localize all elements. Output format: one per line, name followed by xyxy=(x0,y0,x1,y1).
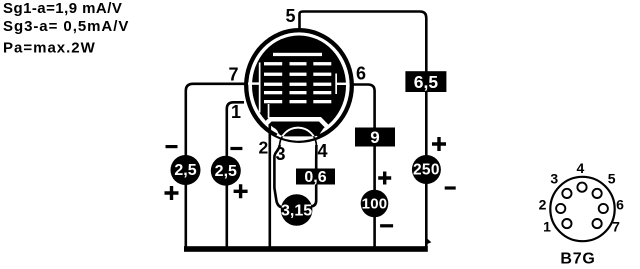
wire pin3 heater xyxy=(274,145,283,208)
svg-text:2: 2 xyxy=(539,197,547,213)
svg-text:1: 1 xyxy=(231,102,241,122)
wire pin6 to screen supply xyxy=(352,85,375,248)
wire pin1 to g3 bias xyxy=(227,102,244,247)
svg-text:3: 3 xyxy=(550,171,558,187)
plus sign of Vg3 xyxy=(234,184,248,198)
socket pin 7 hole xyxy=(593,219,602,228)
B7G socket outline xyxy=(550,177,614,241)
svg-text:6: 6 xyxy=(616,197,624,213)
svg-text:250: 250 xyxy=(413,162,440,179)
svg-text:5: 5 xyxy=(285,6,295,26)
meter anode current 6,5mA xyxy=(405,71,446,92)
internal lead bar left (g1/g3 to pins 7,1) xyxy=(259,63,261,113)
wire pin7 to g1 bias xyxy=(186,84,245,247)
wire pin4 heater xyxy=(309,145,317,207)
svg-text:4: 4 xyxy=(317,141,327,161)
battery anode 250V xyxy=(412,155,441,184)
svg-text:B7G: B7G xyxy=(560,251,595,268)
svg-text:2,5: 2,5 xyxy=(174,162,196,179)
plus sign of anode supply xyxy=(432,137,446,151)
junction arrow tick at anode branch/bus corner xyxy=(427,239,431,244)
grid g4 (dashed row) xyxy=(264,91,331,94)
plus sign of Vg1 xyxy=(165,186,179,200)
internal lead pin6 xyxy=(336,83,348,85)
internal lead pin7 xyxy=(248,82,261,84)
svg-text:100: 100 xyxy=(362,196,388,213)
svg-text:Sg3-a= 0,5mA/V: Sg3-a= 0,5mA/V xyxy=(3,18,129,35)
svg-text:9: 9 xyxy=(370,128,379,147)
minus sign of screen supply xyxy=(380,224,393,227)
socket pin 3 hole xyxy=(562,189,571,198)
tube V1 envelope ring xyxy=(246,30,352,141)
svg-text:2: 2 xyxy=(259,138,269,158)
svg-text:0,6: 0,6 xyxy=(304,169,326,186)
svg-text:6: 6 xyxy=(356,64,366,84)
minus sign of anode supply xyxy=(445,186,456,189)
wire pin5 to anode supply xyxy=(300,12,427,248)
svg-text:Sg1-a=1,9 mA/V: Sg1-a=1,9 mA/V xyxy=(3,0,122,17)
svg-text:3: 3 xyxy=(275,144,285,164)
battery screen 100V xyxy=(361,190,389,218)
svg-text:7: 7 xyxy=(612,219,620,235)
svg-text:6,5: 6,5 xyxy=(414,72,439,92)
battery heater 3,15V xyxy=(281,194,313,226)
svg-text:1: 1 xyxy=(543,219,551,235)
grid g5 (dashed row) xyxy=(264,100,331,103)
meter screen current 9mA xyxy=(355,128,395,147)
internal bracket g2+g4 (right) xyxy=(335,74,337,95)
anode plate (internal, white) xyxy=(273,53,322,56)
socket pin 4 hole xyxy=(577,183,586,192)
ground bus wire xyxy=(184,246,428,252)
socket pin 5 hole xyxy=(593,189,602,198)
svg-text:2,5: 2,5 xyxy=(215,163,237,180)
wire pin2 cathode to bus xyxy=(268,124,271,247)
svg-text:Pa=max.2W: Pa=max.2W xyxy=(3,40,96,57)
plus sign of screen supply xyxy=(378,172,391,185)
battery Vg3 -2,5V xyxy=(211,156,241,186)
minus sign of Vg3 xyxy=(230,147,242,150)
meter heater current 0,6A xyxy=(296,169,335,185)
socket pin 6 hole xyxy=(599,204,608,213)
minus sign of Vg1 xyxy=(166,145,178,148)
grid g3 (dashed row) xyxy=(264,83,331,86)
svg-text:4: 4 xyxy=(577,160,585,176)
internal link g5-cathode xyxy=(268,104,270,118)
heater filament dome xyxy=(280,128,317,146)
grid g2 (dashed row) xyxy=(264,73,331,76)
socket pin 2 hole xyxy=(556,204,565,213)
battery Vg1 -2,5V xyxy=(171,155,201,185)
svg-text:3,15: 3,15 xyxy=(281,203,312,220)
socket pin 1 hole xyxy=(562,219,571,228)
svg-text:7: 7 xyxy=(228,65,238,85)
svg-text:5: 5 xyxy=(608,171,616,187)
grid g1 (dashed row) xyxy=(264,62,331,65)
